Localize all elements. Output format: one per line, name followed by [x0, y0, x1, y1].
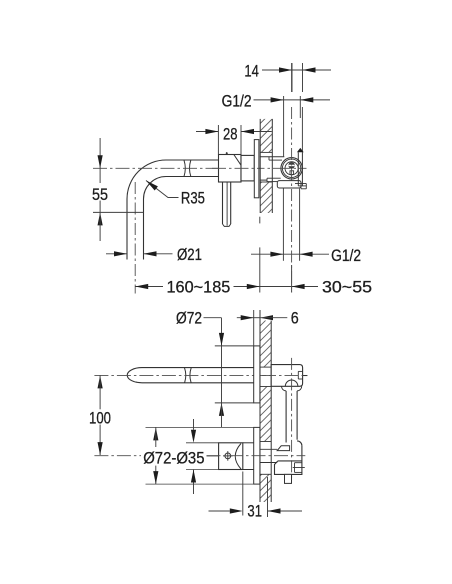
bracket top box screw notch	[262, 371, 307, 379]
wall back face	[271, 119, 273, 213]
bracket bar fillets	[282, 386, 302, 391]
dimension 6	[237, 308, 299, 346]
valve centerline	[94, 455, 305, 457]
D72 lower arrows	[146, 427, 254, 484]
svg-text:6: 6	[291, 308, 299, 327]
svg-text:31: 31	[247, 502, 262, 521]
D35 lower arrows	[186, 419, 219, 494]
svg-text:28: 28	[223, 125, 238, 144]
label R35 leader	[146, 181, 205, 208]
spout vertical drop tube	[127, 199, 144, 260]
spout joint rings	[184, 160, 191, 176]
valve neck behind wall	[260, 449, 277, 462]
svg-text:G1/2: G1/2	[331, 246, 361, 265]
dimension 100	[89, 375, 111, 455]
handle lever rod	[223, 182, 231, 226]
dimension G1/2 lower	[251, 189, 361, 265]
svg-text:14: 14	[244, 62, 259, 81]
bracket bar centerline	[291, 358, 293, 481]
lower wall hole edges	[260, 367, 271, 474]
svg-text:G1/2: G1/2	[222, 91, 252, 110]
dimension G1/2 top	[222, 91, 330, 157]
supply pipe cone tip	[297, 148, 304, 152]
spout horizontal centerline	[93, 167, 307, 169]
dimension 28	[196, 125, 272, 155]
dimension 30~55	[292, 265, 372, 296]
svg-text:Ø72-Ø35: Ø72-Ø35	[143, 448, 204, 467]
lower wall back face	[270, 321, 272, 503]
cartridge middle circle	[282, 159, 300, 177]
lower wall front face	[259, 310, 261, 502]
cartridge horizontal centerline	[281, 167, 304, 169]
valve lower step	[267, 178, 281, 181]
cartridge stem tab	[290, 171, 294, 175]
valve bottom body	[277, 181, 301, 188]
svg-text:100: 100	[89, 408, 111, 427]
dimension 55	[92, 138, 144, 241]
plate for spout (D72)	[254, 346, 260, 403]
svg-text:Ø21: Ø21	[177, 245, 202, 264]
dimension 14	[244, 62, 331, 92]
cartridge outer circle	[281, 158, 302, 179]
cartridge vertical centerline	[291, 63, 293, 293]
lower pipe fitting	[295, 184, 306, 189]
bracket vertical bar	[286, 391, 302, 446]
svg-text:R35: R35	[181, 189, 205, 208]
wall hole edges	[260, 152, 272, 182]
spout vertical centerline	[134, 182, 136, 294]
dimension 31	[209, 472, 303, 521]
wall section hatching	[260, 119, 272, 213]
bracket top box	[271, 365, 302, 387]
cartridge inner circle	[285, 162, 298, 175]
plan spout centerline	[94, 374, 307, 376]
svg-text:30~55: 30~55	[322, 277, 372, 296]
through-wall pipe	[260, 157, 284, 180]
valve handle body (D35)	[219, 443, 254, 470]
supply pipe behind wall	[298, 107, 302, 186]
plan spout tube	[127, 368, 253, 383]
mounting tab below box	[285, 474, 292, 483]
wall escutcheon flange	[254, 140, 259, 198]
D35 leader	[207, 455, 219, 457]
dimension D72 upper	[176, 308, 254, 427]
lower wall hatching	[260, 321, 271, 503]
valve seat wedge	[277, 446, 289, 451]
spout horizontal tube	[127, 160, 219, 199]
dimension D21	[106, 245, 202, 264]
svg-text:Ø72: Ø72	[176, 308, 202, 327]
svg-text:160~185: 160~185	[167, 278, 231, 297]
bracket bottom box	[275, 446, 302, 475]
cartridge screw	[288, 162, 295, 169]
valve body screw	[223, 451, 233, 461]
body-to-wall connector	[241, 155, 254, 181]
dimension 160~185	[135, 217, 318, 297]
plate for valve (D72)	[254, 427, 260, 484]
wall front face	[259, 119, 261, 213]
mixer handle body	[219, 153, 242, 182]
spout centerline over body	[212, 167, 260, 169]
plan spout joint rings	[185, 368, 192, 383]
bottom box screw notch	[293, 463, 305, 473]
bracket pipe dome	[285, 380, 298, 386]
